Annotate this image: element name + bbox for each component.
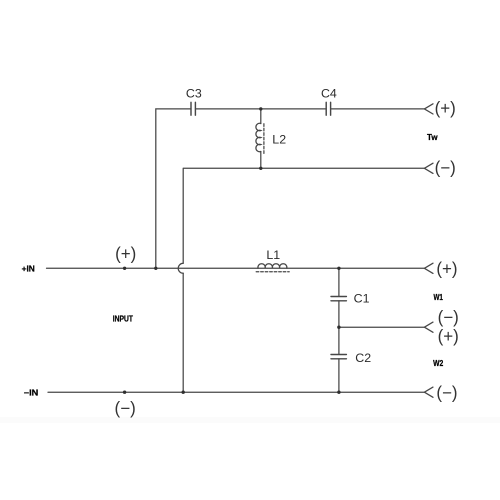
inductor L1 — [256, 264, 289, 272]
svg-text:C3: C3 — [186, 87, 202, 101]
junction C2 bottom — [337, 391, 340, 394]
terminal W2 minus — [424, 387, 433, 397]
junction C3 branch on +IN — [154, 267, 157, 270]
junction -IN node — [123, 391, 126, 394]
svg-text:(+): (+) — [436, 259, 457, 279]
junction C1 C2 mid node — [337, 326, 340, 329]
svg-text:(+): (+) — [438, 326, 459, 346]
svg-text:L1: L1 — [266, 248, 280, 262]
wire mid node to shared terminal — [339, 326, 425, 328]
wire from +IN node up to C3 (left corner of top net) — [156, 109, 191, 268]
wire C4 to Tw plus terminal — [331, 108, 425, 110]
svg-text:(+): (+) — [115, 243, 136, 263]
capacitor C1 — [331, 268, 346, 327]
wire second net: corner to Tw minus terminal — [183, 168, 424, 263]
inductor L2 — [256, 109, 264, 168]
page bottom edge — [0, 417, 500, 423]
svg-text:(−): (−) — [438, 307, 459, 327]
wire vertical down to -IN line — [182, 273, 184, 392]
svg-text:(+): (+) — [435, 98, 456, 118]
svg-text:−IN: −IN — [24, 388, 39, 397]
capacitor C3 — [191, 102, 195, 115]
wire +IN line — [47, 267, 425, 269]
svg-text:(−): (−) — [436, 382, 457, 402]
svg-text:Tw: Tw — [427, 133, 438, 142]
junction L2 bottom — [259, 167, 262, 170]
junction vertical at -IN — [182, 391, 185, 394]
junction +IN node — [123, 267, 126, 270]
svg-text:W1: W1 — [433, 293, 443, 302]
svg-text:W2: W2 — [433, 359, 444, 368]
svg-text:INPUT: INPUT — [113, 315, 133, 324]
terminal Tw minus — [424, 163, 433, 173]
wire -IN line — [48, 391, 424, 393]
svg-text:L2: L2 — [272, 132, 286, 146]
capacitor C4 — [326, 102, 330, 115]
capacitor C2 — [331, 327, 346, 392]
terminal W1 plus — [424, 263, 433, 273]
terminal W1 minus / W2 plus — [424, 322, 433, 332]
wire hop over +IN line — [178, 263, 183, 273]
junction C1 top — [337, 267, 340, 270]
svg-text:C1: C1 — [354, 292, 370, 306]
terminal Tw plus — [424, 104, 433, 114]
svg-text:+IN: +IN — [22, 265, 35, 274]
svg-text:C4: C4 — [321, 87, 337, 101]
wire C3 to C4 — [196, 108, 327, 110]
svg-text:(−): (−) — [435, 157, 456, 177]
svg-text:C2: C2 — [355, 351, 371, 365]
junction L2 top — [259, 107, 262, 110]
svg-text:(−): (−) — [115, 398, 136, 418]
